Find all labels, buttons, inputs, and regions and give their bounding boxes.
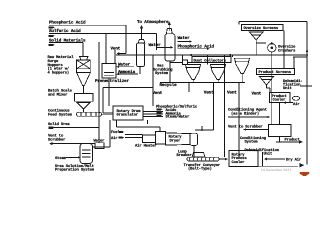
svg-text:Product Screens: Product Screens xyxy=(259,70,292,75)
svg-text:System: System xyxy=(245,140,259,145)
svg-text:Vent: Vent xyxy=(153,91,163,96)
svg-text:Unit: Unit xyxy=(283,86,292,91)
svg-text:Preneutralizer: Preneutralizer xyxy=(95,78,130,84)
svg-text:4 hoppers): 4 hoppers) xyxy=(48,70,70,75)
svg-text:Water: Water xyxy=(178,36,191,41)
svg-text:Dryer: Dryer xyxy=(170,138,181,143)
svg-text:Feed System: Feed System xyxy=(48,112,73,117)
svg-text:Phosphoric Acid: Phosphoric Acid xyxy=(49,20,86,26)
svg-text:Unit: Unit xyxy=(264,152,273,157)
svg-text:Air Heater: Air Heater xyxy=(135,144,157,149)
svg-text:To Atmosphere: To Atmosphere xyxy=(137,19,169,25)
svg-text:Steam/Water: Steam/Water xyxy=(166,115,190,120)
svg-text:System: System xyxy=(155,71,169,76)
svg-text:Oversize Screens: Oversize Screens xyxy=(244,26,279,31)
svg-text:Steam: Steam xyxy=(55,156,67,161)
svg-text:Preparation System: Preparation System xyxy=(55,168,95,173)
svg-text:Cooler: Cooler xyxy=(273,98,286,103)
svg-text:and Mixer: and Mixer xyxy=(48,93,67,98)
svg-text:Vent: Vent xyxy=(111,46,121,51)
svg-text:Vent: Vent xyxy=(227,91,237,96)
svg-text:Dust Collectors: Dust Collectors xyxy=(194,58,227,63)
svg-text:Batch Scale: Batch Scale xyxy=(48,88,73,93)
svg-text:Phosphoric/Sulfuric: Phosphoric/Sulfuric xyxy=(156,104,198,109)
svg-text:Granulator: Granulator xyxy=(117,113,139,118)
svg-text:Vent: Vent xyxy=(204,91,214,96)
svg-text:(as a Binder): (as a Binder) xyxy=(231,111,259,116)
svg-text:Cooler: Cooler xyxy=(232,160,245,165)
svg-text:Crushers: Crushers xyxy=(278,48,296,53)
svg-text:Air: Air xyxy=(111,136,117,141)
svg-text:(Belt-Type): (Belt-Type) xyxy=(188,167,212,172)
svg-text:Air: Air xyxy=(293,102,299,107)
svg-text:Dry Air: Dry Air xyxy=(286,158,301,163)
svg-text:Vent: Vent xyxy=(252,92,262,97)
svg-text:14 December 2021: 14 December 2021 xyxy=(261,168,291,172)
svg-text:Scrubber: Scrubber xyxy=(48,137,65,142)
